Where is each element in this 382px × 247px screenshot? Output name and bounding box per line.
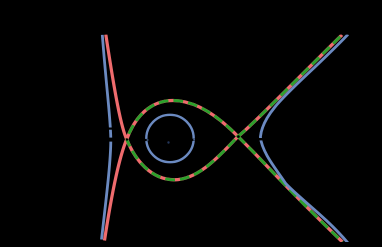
green dashed diagonal lower-right xyxy=(238,137,343,243)
center fixed point dot xyxy=(167,141,169,143)
green dashed diagonal upper-right xyxy=(238,35,342,137)
gap on blue left trajectory (upper) xyxy=(106,128,114,130)
red diagonal lower-right of saddle B xyxy=(238,137,343,243)
red diagonal upper-right of saddle B xyxy=(238,35,342,137)
saddle B center gap xyxy=(237,135,240,138)
saddle A center gap xyxy=(126,138,128,140)
trajectory blue right hyperbola branch xyxy=(260,34,348,243)
manifold red upper-left of saddle A xyxy=(106,35,127,140)
periodic orbit blue circle xyxy=(146,115,193,162)
gap on blue left trajectory (lower) xyxy=(106,138,114,142)
faint stub in right gap xyxy=(193,139,195,141)
gap at right hyperbola vertex xyxy=(257,138,265,140)
green dashed eye upper branch xyxy=(127,101,238,140)
red heteroclinic eye underlay xyxy=(127,101,238,180)
gap at circle left extreme xyxy=(144,139,148,141)
manifold red lower-left of saddle A xyxy=(105,139,127,240)
faint stub in left gap xyxy=(147,139,149,141)
trajectory blue left hyperbola branch xyxy=(102,35,111,240)
green dashed eye lower branch xyxy=(127,137,238,180)
gap at circle right extreme xyxy=(192,139,196,141)
